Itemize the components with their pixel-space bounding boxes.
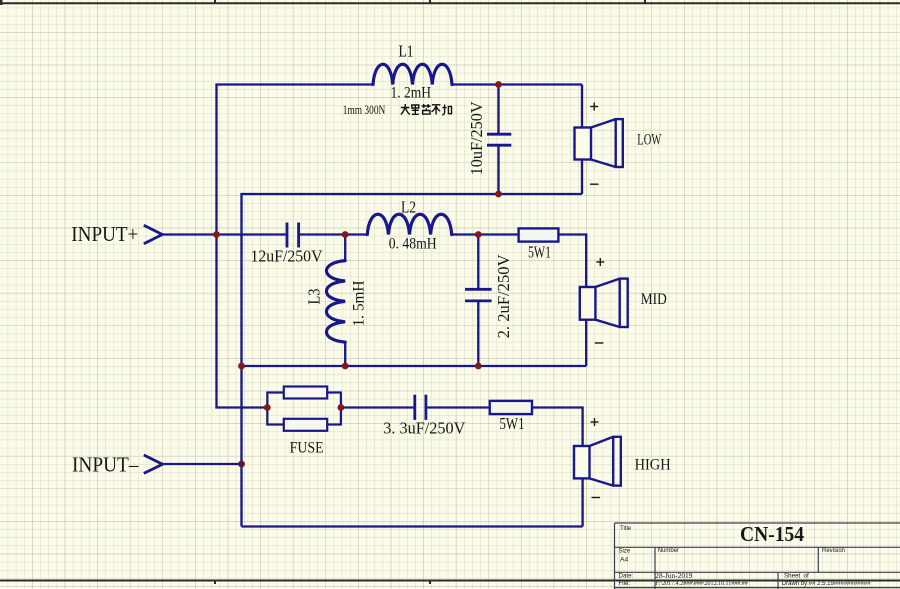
svg-text:2. 2uF/250V: 2. 2uF/250V [494,254,513,338]
speaker MID [580,279,628,327]
svg-text:File:: File: [619,580,631,587]
svg-text:5W1: 5W1 [500,414,525,433]
wire L1 rail right segment [452,83,582,85]
wire LOW speaker column bottom [581,160,583,195]
inductor L3 (vertical) [326,261,345,342]
wire vertical bus A lower (INPUT+ down to fuse row) [217,235,268,408]
svg-text:L2: L2 [401,197,416,216]
svg-text:MID: MID [641,291,667,308]
svg-text:1. 5mH: 1. 5mH [351,280,368,326]
svg-text:1mm 300N: 1mm 300N [343,103,386,117]
wire HIGH speaker column bottom [581,478,583,526]
svg-text:L3: L3 [305,289,324,305]
wire bottom rail (HIGH return) [242,525,583,527]
MID plus [596,261,604,263]
svg-text:L1: L1 [399,41,414,60]
svg-text:F:\2017.4.2###\###\2012.10.11#: F:\2017.4.2###\###\2012.10.11###.## [656,581,748,587]
node fuse right [338,404,345,411]
sheet top border [0,0,900,5]
speaker HIGH [574,437,621,486]
capacitor 2.2uF/250V plates [465,289,492,301]
port arrow INPUT- [144,455,163,473]
note 大骨架不加 (stylized CJK strokes) [401,104,452,115]
svg-text:CN-154: CN-154 [740,522,804,546]
svg-text:28-Jun-2019: 28-Jun-2019 [655,571,692,580]
inductor L1 [373,64,452,84]
svg-text:3. 3uF/250V: 3. 3uF/250V [383,419,465,438]
svg-text:Revision: Revision [822,548,845,554]
svg-text:A4: A4 [620,556,629,563]
wire 5W1 to HIGH column [532,408,583,447]
node 2.2uF bottom [475,363,482,370]
svg-text:12uF/250V: 12uF/250V [251,247,323,266]
node L3 bottom [342,363,349,370]
LOW minus [590,183,599,185]
wire INPUT+ to 12uF cap [162,233,286,235]
wire node to L2 [345,233,367,235]
polarity marks [590,103,604,498]
resistor 5W1 (mid row) [519,228,559,241]
capacitor 12uF/250V plates [287,223,299,248]
node L2/L3 [342,231,349,238]
junction dots [213,81,502,467]
node INPUT+ bus [213,231,220,238]
wire 10uF cap bottom lead [497,145,499,194]
wire 3.3uF to 5W1 resistor [427,406,489,408]
svg-text:Number: Number [658,548,679,554]
wire fuse right node to 3.3uF [341,406,414,408]
wire 10uF cap top lead [497,85,499,135]
HIGH plus [591,421,599,423]
node MID rail left [238,363,245,370]
node fuse left [264,404,271,411]
node L2/2.2uF [475,231,482,238]
svg-text:LOW: LOW [637,132,662,149]
svg-text:Sheet: Sheet [784,572,800,579]
wire LOW speaker column top [581,85,583,128]
svg-text:1. 2mH: 1. 2mH [391,85,432,102]
svg-text:Size: Size [619,549,631,555]
port arrow INPUT+ [144,225,163,243]
wire MID bottom rail [242,365,587,367]
svg-text:Drawn by:## 2.5.19###########: Drawn by:## 2.5.19########### [782,581,871,587]
wire LOW bottom rail [242,194,583,527]
capacitor 10uF/250V plates [487,134,511,145]
node INPUT- bus [238,461,245,468]
fuse F1 (two parallel boxes) [267,387,341,431]
node 10uF/LOW rail [495,191,502,198]
resistor 5W1 (high row) [490,401,532,414]
wire INPUT- lead [162,463,242,465]
svg-text:10uF/250V: 10uF/250V [467,101,486,175]
svg-text:0. 48mH: 0. 48mH [389,236,437,253]
title block labels [619,526,872,587]
svg-text:Title: Title [620,526,632,532]
wire 5W1 to MID column [558,235,586,288]
speaker LOW [575,119,623,167]
wire 12uF cap to node [300,233,345,235]
svg-text:INPUT–: INPUT– [72,453,139,477]
sheet bottom border [0,581,900,585]
svg-text:5W1: 5W1 [528,243,551,262]
svg-text:FUSE: FUSE [290,440,324,457]
svg-text:HIGH: HIGH [635,457,671,474]
wire L3 top lead [344,235,346,261]
wire MID speaker column bottom [585,320,587,366]
wire 2.2uF top lead [477,235,479,290]
wire L3 bottom lead [344,342,346,366]
wire 2.2uF bottom lead [477,301,479,366]
wire L1 rail left segment [217,85,374,235]
svg-text:Date:: Date: [619,573,634,580]
LOW plus [590,106,598,108]
svg-text:INPUT+: INPUT+ [71,222,138,246]
node L1/10uF [495,81,502,88]
MID minus [595,342,604,344]
svg-text:of: of [804,572,809,579]
wire L2 to 5W1 resistor [452,233,519,235]
HIGH minus [592,497,601,499]
capacitor 3.3uF/250V plates [415,395,426,420]
inductor L2 [367,214,451,234]
